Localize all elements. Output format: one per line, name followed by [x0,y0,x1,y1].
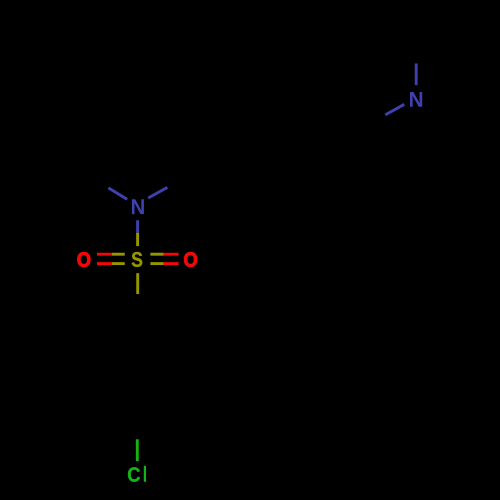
bond C2-N1 outer half (carbon half) [78,169,109,188]
bond N1-S upper half (nitrogen half, blue) [136,220,139,233]
double bond S=O right, upper line, oxygen half (red) [164,253,179,256]
carbon skeleton bonds (carbon = black, invisible on black background) [78,28,417,439]
bond N1 half up-right (nitrogen half, blue) [148,187,167,198]
atom label S (sulfonyl sulfur, olive) [132,252,142,267]
bond C6-N1 outer half (carbon half) [167,170,196,188]
bond N2-C3' inner half (nitrogen half, blue) [385,104,404,115]
bond S-C1 upper half (sulfur half, olive) [136,273,139,294]
bond N2-CH3 lower half (nitrogen half, blue) [415,64,418,86]
double bond S=O left, upper line, oxygen half (red) [97,253,112,256]
double bond S=O right, lower line, oxygen half (red) [164,262,179,265]
double bond S=O left, lower line, oxygen half (red) [97,262,112,265]
bond C4-Cl lower half (chlorine half, green) [136,439,139,461]
bond C3'-N2 outer half (carbon half) [354,115,385,131]
atom label N1 (sulfonamide nitrogen, blue) [132,199,144,214]
chain carbons to N2 [197,131,354,170]
bond CH3-N2 upper half (carbon half) [415,28,419,63]
double bond S=O left, lower line, sulfur half (olive) [112,262,125,265]
double bond S=O right, lower line, sulfur half (olive) [150,262,163,265]
atom label Cl: C glyph (chlorine, green) [128,467,140,482]
bond C4(phenyl)-Cl upper half (carbon half) [136,404,139,439]
phenyl aromatic inner double-bond lines [163,351,166,381]
double bond S=O right, upper line, sulfur half (olive) [150,253,163,256]
double bond S=O left, upper line, sulfur half (olive) [112,253,125,256]
phenyl ring C1-C2-C3-C4-C5-C6 [105,329,170,404]
atom label N2 (methylamino nitrogen, blue) [410,92,422,107]
piperidine ring carbons around N1 [78,62,197,207]
atom label O left (oxygen, red) [78,252,91,266]
atom label Cl: l glyph (chlorine, green) [144,466,146,482]
bond N1-S lower half (sulfur half, olive) [136,233,139,246]
bond S-C1(phenyl) lower half (carbon half) [136,294,139,329]
atom label O right (oxygen, red) [184,252,197,266]
bond N1 half up-left (nitrogen half, blue) [108,188,127,200]
